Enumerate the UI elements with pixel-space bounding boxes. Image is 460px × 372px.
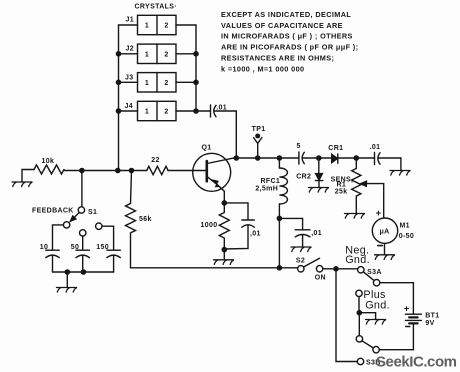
switch S1 FEEDBACK (32, 171, 97, 229)
svg-text:22: 22 (151, 157, 160, 164)
svg-text:2: 2 (164, 23, 168, 30)
crystal J4 (119, 101, 197, 120)
ground beside RFC (291, 247, 311, 252)
wire S2 to junction (323, 268, 358, 270)
svg-text:10: 10 (40, 244, 49, 251)
svg-text:J4: J4 (125, 103, 134, 110)
svg-text:ON: ON (315, 275, 326, 282)
svg-text:Q1: Q1 (202, 144, 212, 151)
wire S3A to battery top (380, 283, 414, 307)
wire from .01 down to main line (235, 111, 237, 158)
node caps bus 50 (81, 269, 87, 275)
svg-text:J3: J3 (125, 74, 134, 81)
node CR2 (316, 155, 322, 161)
svg-text:.01: .01 (370, 144, 381, 151)
node CR1-R1 (354, 155, 360, 161)
wire left crystal bus (118, 25, 120, 171)
node base row S1 (79, 168, 85, 174)
test point TP1 (252, 126, 266, 158)
wire 22 to Q1 base (168, 170, 206, 172)
svg-text:2: 2 (164, 52, 168, 59)
svg-text:CR2: CR2 (296, 173, 311, 180)
crystal J2 (119, 44, 197, 63)
capacitor 10 (40, 225, 64, 272)
node TP1 (255, 155, 261, 161)
svg-text:ARE IN PICOFARADS ( pF OR μμF: ARE IN PICOFARADS ( pF OR μμF ); (221, 43, 358, 52)
capacitor ,01 emitter bypass (224, 203, 260, 249)
svg-text:RESISTANCES ARE IN OHMS;: RESISTANCES ARE IN OHMS; (221, 54, 334, 63)
svg-text:SeekIC.com: SeekIC.com (376, 354, 457, 371)
wire right crystal bus (195, 25, 197, 111)
node 1000 bottom (222, 247, 228, 253)
svg-text:2,5mH: 2,5mH (255, 185, 278, 192)
svg-text:,01: ,01 (311, 230, 322, 237)
node RFC1 top (277, 155, 283, 161)
svg-text:+: + (404, 303, 410, 314)
svg-text:10k: 10k (42, 158, 55, 165)
svg-text:S3A: S3A (367, 269, 382, 276)
svg-text:Gnd.: Gnd. (365, 299, 390, 311)
capacitor 50 (71, 230, 90, 272)
switch S2 (296, 258, 326, 282)
wire junction down to S3B throw (336, 269, 357, 362)
svg-text:μA: μA (379, 228, 389, 235)
svg-text:Gnd.: Gnd. (345, 254, 370, 266)
battery BT1 (404, 303, 440, 349)
ground feedback caps (66, 272, 68, 288)
capacitor .01 top right (370, 144, 381, 164)
svg-text:9V: 9V (425, 320, 434, 327)
svg-text:1: 1 (145, 23, 149, 30)
svg-text:5: 5 (297, 143, 301, 150)
wire plus-gnd to S3B (358, 313, 360, 336)
svg-text:25k: 25k (335, 189, 348, 196)
capacitor 5 (297, 143, 305, 164)
transistor Q1 (193, 144, 236, 203)
ground at 10k (22, 170, 34, 183)
svg-text:CR1: CR1 (328, 145, 343, 152)
svg-text:0-50: 0-50 (399, 233, 414, 240)
node plus-gnd (357, 310, 363, 316)
svg-text:2: 2 (164, 80, 168, 87)
svg-text:S1: S1 (88, 209, 97, 216)
node left bus J3 (116, 80, 122, 86)
meter M1 (372, 208, 414, 255)
Neg Gnd label (345, 245, 370, 266)
ground CR2 (309, 188, 329, 193)
switch S3A (358, 267, 382, 286)
resistor 56k (126, 171, 152, 268)
ground top right (400, 158, 402, 171)
node bus RFC (277, 265, 283, 271)
diode CR2 (296, 158, 323, 188)
capacitor .01 at J4 (196, 104, 236, 117)
svg-text:56k: 56k (139, 216, 152, 223)
svg-text:1: 1 (145, 52, 149, 59)
capacitor ,01 beside RFC (279, 218, 322, 247)
node RFC bottom (277, 216, 283, 222)
svg-text:FEEDBACK: FEEDBACK (32, 208, 74, 215)
svg-text:BT1: BT1 (425, 312, 439, 319)
ground 1000 (223, 250, 225, 260)
node collector (234, 155, 240, 161)
ground plus-gnd (359, 313, 375, 320)
ground R1 (345, 214, 365, 219)
svg-text:1: 1 (145, 80, 149, 87)
wire S3B to battery bottom (379, 349, 413, 351)
svg-text:VALUES OF CAPACITANCE ARE: VALUES OF CAPACITANCE ARE (221, 21, 343, 30)
svg-text:TP1: TP1 (252, 126, 266, 133)
svg-text:50: 50 (71, 244, 80, 251)
node right bus J3 (193, 80, 199, 86)
Plus Gnd terminal (356, 289, 390, 313)
svg-text:1000: 1000 (201, 222, 218, 229)
notice text block (221, 10, 358, 74)
svg-text:EXCEPT AS INDICATED, DECIMAL: EXCEPT AS INDICATED, DECIMAL (221, 10, 351, 19)
svg-text:R1: R1 (337, 181, 347, 188)
crystal J3 (119, 73, 197, 92)
node right bus J2 (193, 51, 199, 57)
potentiometer R1 SENS (331, 158, 384, 218)
svg-text:RFC1: RFC1 (261, 178, 281, 185)
svg-text:150: 150 (96, 244, 109, 251)
terminal S3B bottom (357, 358, 363, 364)
svg-text:J2: J2 (126, 46, 135, 53)
svg-text:k =1000 , M=1 000 000: k =1000 , M=1 000 000 (221, 64, 304, 73)
node left bus J4 (116, 108, 122, 114)
svg-text:2: 2 (164, 109, 168, 116)
node left bus J2 (116, 51, 122, 57)
svg-text:1: 1 (145, 109, 149, 116)
wire RFC node to bus (278, 218, 280, 267)
node emitter (222, 200, 228, 206)
svg-text:+: + (376, 208, 382, 219)
wire base row (65, 170, 147, 172)
resistor 22 (147, 157, 168, 175)
svg-text:J1: J1 (126, 16, 135, 23)
crystal J1 (119, 15, 197, 34)
resistor 10k (34, 158, 64, 174)
svg-text:S2: S2 (296, 258, 305, 265)
capacitor 150 (96, 223, 121, 272)
svg-text:,01: ,01 (250, 231, 261, 238)
svg-text:IN MICROFARADS ( μF ) ; OTHERS: IN MICROFARADS ( μF ) ; OTHERS (221, 32, 353, 41)
node base row 56k (129, 168, 135, 174)
wire bottom bus (131, 267, 298, 269)
node right bus J4 (193, 108, 199, 114)
node caps bus ground (65, 269, 71, 275)
node S2 output (333, 266, 339, 272)
ground M1 (375, 255, 395, 260)
switch S3B (356, 336, 379, 353)
inductor RFC1 (255, 158, 287, 218)
svg-text:CRYSTALS·: CRYSTALS· (135, 4, 177, 11)
svg-text:M1: M1 (400, 223, 410, 230)
node base row crystal bus (115, 168, 121, 174)
wire caps bottom bus (53, 271, 114, 273)
svg-text:.01: .01 (216, 104, 227, 111)
diode CR1 (328, 145, 343, 163)
wire main top line (236, 157, 401, 159)
resistor 1000 (201, 203, 230, 250)
